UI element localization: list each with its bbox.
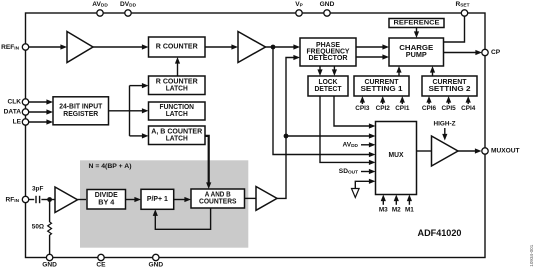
- svg-text:CHARGE: CHARGE: [399, 45, 433, 52]
- block PHASE FREQUENCY DETECTOR: [300, 38, 356, 66]
- svg-text:BY 4: BY 4: [98, 199, 114, 206]
- svg-text:DETECTOR: DETECTOR: [309, 55, 348, 62]
- op-amp reference input buffer: [67, 32, 93, 63]
- block CHARGE PUMP: [389, 38, 444, 66]
- wire RF buffer to divide by 4: [78, 199, 87, 201]
- wire CLK to register: [29, 99, 54, 104]
- pin label CPI6 with arrow: [422, 96, 437, 112]
- wire PFD to lock detect left: [317, 66, 322, 76]
- wire register to latches trunk: [109, 86, 130, 136]
- block REFERENCE: [389, 19, 444, 28]
- capacitor 3pF: [29, 186, 56, 204]
- pin CLK: [7, 99, 28, 106]
- wire ref junction to MUX: [273, 47, 376, 157]
- svg-text:CE: CE: [96, 261, 106, 268]
- block CURRENT SETTING 1: [354, 76, 409, 96]
- op-amp reference buffer 2: [238, 32, 266, 63]
- svg-text:CURRENT: CURRENT: [365, 79, 400, 86]
- pin label M1 with arrow: [405, 195, 414, 214]
- svg-text:LOCK: LOCK: [319, 79, 338, 86]
- wire charge pump to CP pin: [444, 50, 483, 55]
- ground stub to MUX: [352, 179, 376, 198]
- pin LE: [13, 119, 29, 126]
- op-amp MUXOUT tristate buffer: [432, 136, 459, 166]
- svg-text:HIGH-Z: HIGH-Z: [433, 121, 455, 128]
- svg-text:CPI1: CPI1: [395, 105, 410, 112]
- wire PFD to lock detect right: [332, 66, 337, 76]
- wire divide by 4 to prescaler: [126, 197, 142, 202]
- pin label CPI4 with arrow: [461, 96, 476, 112]
- pin VP: [295, 1, 303, 16]
- svg-text:REFERENCE: REFERENCE: [394, 20, 441, 27]
- svg-text:CPI2: CPI2: [376, 105, 391, 112]
- wire trunk to A B counter latch: [130, 133, 149, 138]
- pin MUXOUT: [482, 148, 520, 155]
- wire REFIN to input buffer: [29, 44, 68, 49]
- pin RSET: [455, 1, 469, 16]
- svg-text:CPI4: CPI4: [461, 105, 476, 112]
- svg-text:GND: GND: [320, 1, 335, 8]
- wire DATA to register: [29, 109, 54, 114]
- wire trunk to function latch: [130, 108, 149, 113]
- node ref junction: [271, 45, 276, 50]
- wire MUX to output buffer: [417, 150, 432, 152]
- wire trunk to R counter latch: [130, 83, 149, 88]
- svg-text:LATCH: LATCH: [166, 111, 188, 118]
- op-amp RF input buffer: [55, 187, 78, 213]
- block 24-BIT INPUT REGISTER: [53, 97, 109, 125]
- svg-text:SETTING 1: SETTING 1: [361, 86, 403, 93]
- N divider shaded region: [80, 160, 248, 247]
- pin CE: [96, 254, 106, 268]
- block FUNCTION LATCH: [149, 102, 206, 120]
- wire A and B counters feedback to prescaler: [153, 208, 211, 229]
- pin label M3 with arrow: [379, 195, 388, 214]
- wire buffer2 to PFD: [266, 44, 301, 49]
- label figure number 10934-001: [529, 244, 533, 266]
- svg-text:LATCH: LATCH: [166, 85, 188, 92]
- pin AVDD: [92, 1, 108, 16]
- label HIGH-Z with arrow: [433, 121, 455, 141]
- wire buffer to R counter: [93, 44, 149, 49]
- wire lock detect to MUX analog: [320, 96, 376, 165]
- label SDOUT to MUX: [339, 168, 376, 176]
- label N = 4(BP + A): [89, 163, 132, 170]
- svg-text:GND: GND: [42, 261, 57, 268]
- block MUX: [376, 122, 417, 195]
- node RF junction: [47, 197, 52, 202]
- pin REFIN: [1, 44, 29, 52]
- wire reference to charge pump: [414, 28, 419, 39]
- svg-text:M2: M2: [392, 206, 401, 213]
- pin GND bottom-left: [42, 254, 57, 268]
- wire N junction to MUX: [286, 133, 376, 138]
- wire output buffer to MUXOUT pin: [458, 148, 482, 153]
- pin label CPI5 with arrow: [441, 96, 456, 112]
- wire R counter to buffer2: [205, 44, 238, 49]
- svg-text:CPI5: CPI5: [441, 105, 456, 112]
- wire R counter latch to R counter: [175, 57, 180, 76]
- block CURRENT SETTING 2: [422, 76, 477, 96]
- wire A B counter latch to A and B counters: [205, 136, 211, 189]
- svg-text:CURRENT: CURRENT: [433, 79, 468, 86]
- svg-text:MUXOUT: MUXOUT: [491, 148, 520, 155]
- svg-text:LE: LE: [13, 119, 22, 126]
- svg-text:GND: GND: [148, 261, 163, 268]
- resistor 50 ohm: [32, 200, 52, 255]
- wire PFD up output to charge pump: [356, 44, 389, 49]
- pin label CPI1 with arrow: [395, 96, 410, 112]
- svg-text:FUNCTION: FUNCTION: [160, 104, 195, 111]
- svg-text:SETTING 2: SETTING 2: [429, 86, 471, 93]
- label ADF41020: [418, 228, 462, 239]
- pin RFIN: [5, 196, 28, 204]
- wire N buffer to PFD: [277, 55, 300, 199]
- wire current setting 1 to charge pump: [396, 66, 401, 76]
- pin label M2 with arrow: [392, 195, 401, 214]
- svg-text:CPI3: CPI3: [355, 105, 370, 112]
- pin DATA: [4, 109, 29, 116]
- node N feedback junction: [284, 134, 289, 139]
- wire lock detect to MUX digital: [334, 96, 376, 129]
- wire prescaler to A and B counters: [174, 197, 191, 202]
- wire PFD down output to charge pump: [356, 54, 389, 59]
- svg-text:24-BIT INPUT: 24-BIT INPUT: [59, 104, 103, 111]
- pin label CPI2 with arrow: [376, 96, 391, 112]
- svg-text:A, B COUNTER: A, B COUNTER: [151, 128, 202, 135]
- pin DVDD: [120, 1, 137, 16]
- pin CP: [482, 49, 501, 56]
- svg-text:DATA: DATA: [4, 109, 22, 116]
- block DIVIDE BY 4: [87, 190, 126, 210]
- svg-text:MUX: MUX: [389, 152, 404, 159]
- wire current setting 2 to charge pump: [430, 66, 435, 76]
- svg-text:DIVIDE: DIVIDE: [95, 192, 118, 199]
- block P/P+1 prescaler: [141, 189, 174, 209]
- wire LE to register: [29, 119, 54, 124]
- svg-text:N = 4(BP + A): N = 4(BP + A): [89, 163, 132, 170]
- svg-text:10934-001: 10934-001: [529, 244, 533, 266]
- wire A and B counters to N buffer: [245, 197, 257, 199]
- svg-text:CP: CP: [491, 49, 501, 56]
- svg-text:R COUNTER: R COUNTER: [156, 44, 198, 51]
- pin GND bottom-mid: [148, 254, 163, 268]
- svg-text:LATCH: LATCH: [166, 135, 188, 142]
- outer boundary box: [26, 13, 486, 258]
- svg-text:CPI6: CPI6: [422, 105, 437, 112]
- svg-text:ADF41020: ADF41020: [418, 228, 462, 239]
- svg-text:P/P+ 1: P/P+ 1: [147, 196, 168, 203]
- svg-text:M3: M3: [379, 206, 388, 213]
- svg-text:COUNTERS: COUNTERS: [199, 198, 237, 205]
- label AVDD to MUX: [342, 141, 375, 149]
- op-amp N feedback buffer: [256, 187, 277, 211]
- svg-text:PUMP: PUMP: [406, 52, 427, 59]
- pin GND top: [320, 1, 335, 16]
- block LOCK DETECT: [308, 76, 348, 96]
- pin label CPI3 with arrow: [355, 96, 370, 112]
- svg-text:DETECT: DETECT: [315, 86, 343, 93]
- svg-text:M1: M1: [405, 206, 414, 213]
- block A AND B COUNTERS: [191, 189, 245, 208]
- svg-text:50Ω: 50Ω: [32, 224, 44, 231]
- block A B COUNTER LATCH: [149, 126, 206, 145]
- svg-text:REGISTER: REGISTER: [63, 111, 98, 118]
- svg-text:3pF: 3pF: [32, 186, 43, 193]
- wire RSET to charge pump: [444, 16, 465, 42]
- svg-text:R COUNTER: R COUNTER: [156, 78, 198, 85]
- block R COUNTER: [149, 37, 206, 57]
- svg-text:CLK: CLK: [7, 99, 21, 106]
- block R COUNTER LATCH: [149, 76, 206, 95]
